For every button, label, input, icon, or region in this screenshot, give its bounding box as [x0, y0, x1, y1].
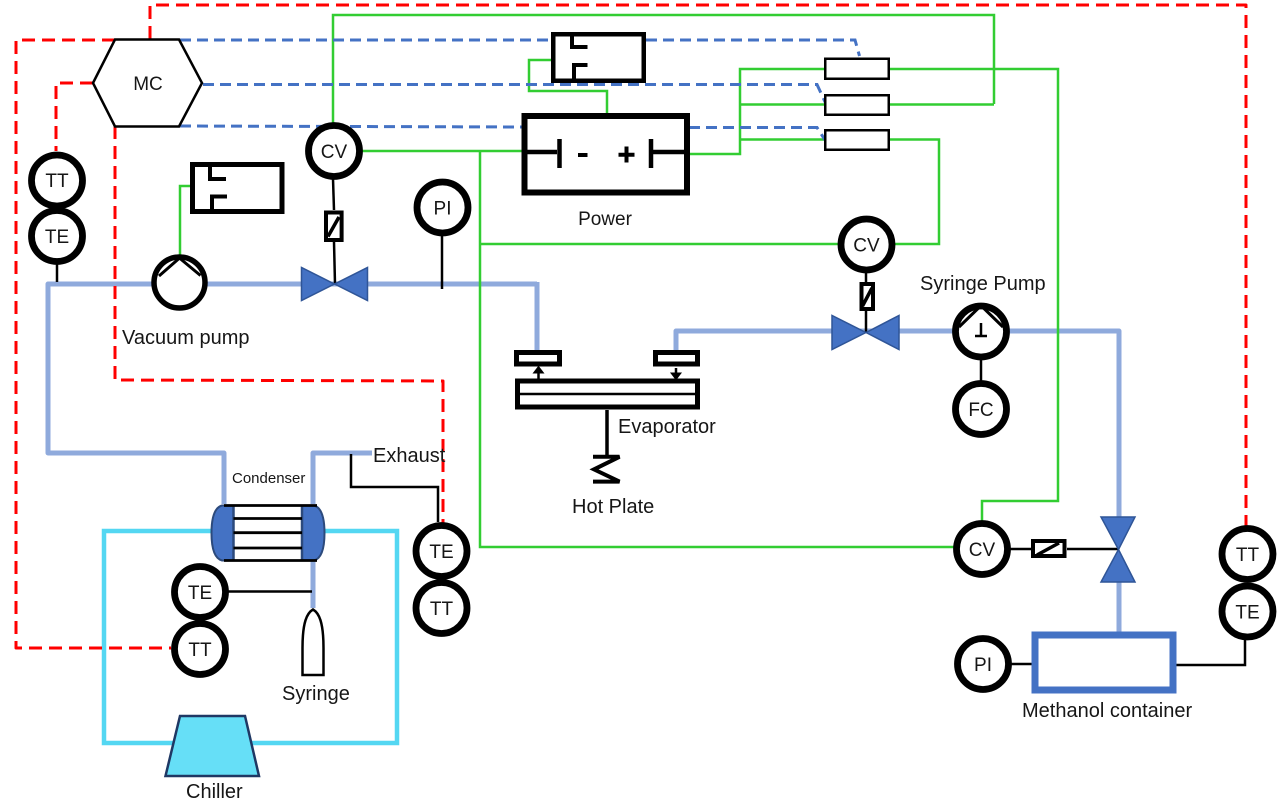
wire pipe main horizontal + left down-leg: [48, 284, 537, 504]
wire green relay2 to vacuum pump: [180, 186, 190, 256]
controller CV2: [841, 219, 892, 270]
svg-text:TE: TE: [1235, 603, 1259, 624]
solenoid 1: [326, 213, 342, 241]
wire green power right to relay rects: [689, 69, 824, 154]
wire methanol container to TE4: [1176, 639, 1245, 665]
svg-text:Chiller: Chiller: [186, 781, 243, 803]
controller CV3: [957, 524, 1008, 575]
svg-text:Condenser: Condenser: [232, 470, 305, 487]
wire green long vertical to CV3: [480, 152, 955, 547]
svg-text:TT: TT: [430, 599, 454, 620]
syringe: [303, 610, 324, 676]
instrument TE2: [175, 567, 226, 618]
svg-text:PI: PI: [974, 655, 992, 676]
wire blue dashed 3b power box to rect3: [689, 128, 825, 141]
relay rect 3: [825, 130, 889, 150]
wire green relay1 to power box top: [529, 60, 607, 114]
instrument TE4: [1222, 586, 1273, 637]
wire green tee rect2: [740, 103, 824, 106]
wire red MC top to right TT: [150, 5, 1246, 527]
svg-text:MC: MC: [133, 74, 163, 95]
svg-text:TT: TT: [45, 171, 69, 192]
evaporator slab: [517, 381, 698, 407]
svg-text:Methanol container: Methanol container: [1022, 700, 1192, 722]
wire green tee rect3: [740, 138, 824, 141]
wire green tee to CV2: [480, 243, 839, 246]
hexagon MC: [93, 40, 202, 127]
svg-text:TE: TE: [188, 583, 212, 604]
instrument TT3 (exhaust): [416, 583, 467, 634]
wire evaporator stem to hot plate: [605, 410, 609, 455]
power box: [525, 116, 688, 193]
wire blue dashed 2 hexagon to rect2: [203, 85, 826, 105]
instrument TT1: [32, 155, 83, 206]
svg-text:Evaporator: Evaporator: [618, 416, 716, 438]
svg-text:Syringe: Syringe: [282, 683, 350, 705]
svg-text:TT: TT: [1236, 545, 1260, 566]
svg-text:Syringe Pump: Syringe Pump: [920, 273, 1046, 295]
instrument TT4: [1222, 529, 1273, 580]
svg-text:CV: CV: [321, 142, 348, 163]
wire pipe right system horizontal: [676, 331, 1119, 517]
svg-text:Exhaust: Exhaust: [373, 445, 446, 467]
valve 3 vertical: [1101, 517, 1135, 582]
solenoid 3: [1033, 541, 1065, 556]
svg-text:Hot Plate: Hot Plate: [572, 496, 654, 518]
evaporator right boat: [656, 353, 698, 365]
svg-text:PI: PI: [434, 199, 452, 220]
relay rect 2: [825, 95, 889, 115]
wire blue dashed 3 hexagon to power box: [180, 126, 522, 127]
svg-text:FC: FC: [968, 400, 993, 421]
syringe pump: [956, 306, 1007, 357]
valve 2: [832, 316, 899, 350]
solenoid 2: [862, 284, 874, 309]
methanol container: [1035, 635, 1173, 690]
vacuum pump: [154, 257, 205, 308]
relay box 2: [193, 165, 283, 212]
wire green rect1 right to CV3 top: [890, 69, 1058, 522]
svg-text:CV: CV: [969, 540, 996, 561]
wire PI1 stem: [441, 236, 444, 289]
wire TE2 to syringe pipe: [228, 590, 312, 593]
svg-text:Power: Power: [578, 209, 633, 230]
wire pipe valve to methanol container: [1117, 582, 1122, 634]
instrument TE3 (exhaust): [416, 526, 467, 577]
svg-text:CV: CV: [853, 236, 880, 257]
instrument TT2: [175, 624, 226, 675]
wire pipe drop to left boat: [535, 282, 540, 352]
wire PI4 to methanol container: [1010, 663, 1032, 666]
wire CV2 to solenoid2 to valve2: [865, 272, 868, 282]
wire green CV1 to power box: [362, 150, 522, 153]
wire green rect2 right up to bus: [890, 103, 994, 106]
wire exhaust to TE3: [351, 454, 438, 522]
arrow up left: [534, 367, 544, 380]
relay rect 1: [825, 59, 889, 79]
wire green rect3 right to CV2: [890, 140, 939, 245]
instrument TE1: [32, 211, 83, 262]
wire green top bus: [333, 15, 994, 124]
wire syringe pump to FC: [980, 360, 983, 382]
wire chiller loop: [104, 531, 397, 743]
wire blue dashed 1b relay1 to rect1: [646, 40, 860, 56]
wire pipe condenser bottom to syringe: [311, 561, 316, 608]
svg-text:Vacuum pump: Vacuum pump: [122, 327, 249, 349]
valve 1: [302, 268, 368, 301]
instrument PI1: [417, 182, 468, 233]
wire TE1 stem: [56, 263, 59, 282]
wire red MC left vertex to TT1: [56, 83, 93, 151]
instrument PI4: [958, 639, 1009, 690]
svg-text:TT: TT: [188, 640, 212, 661]
instrument FC: [956, 384, 1007, 435]
wire CV1 to solenoid1 to valve1: [333, 179, 334, 210]
svg-text:TE: TE: [429, 542, 453, 563]
wire CV3 to solenoid3 to valve3: [1009, 548, 1031, 551]
wire pipe condenser right riser to exhaust: [313, 453, 372, 504]
chiller: [166, 716, 260, 776]
controller CV1: [309, 126, 360, 177]
wire red MC bottom to exhaust TE: [115, 126, 443, 523]
wire blue dashed 1 hexagon to relay1: [180, 39, 551, 42]
arrow down right: [671, 368, 681, 380]
evaporator left boat: [517, 353, 560, 365]
relay box 1: [553, 34, 644, 81]
wire red MC left-top to bottom-left TT: [16, 40, 171, 648]
svg-text:TE: TE: [45, 227, 69, 248]
condenser: [212, 505, 325, 561]
hot plate coil: [593, 457, 620, 482]
